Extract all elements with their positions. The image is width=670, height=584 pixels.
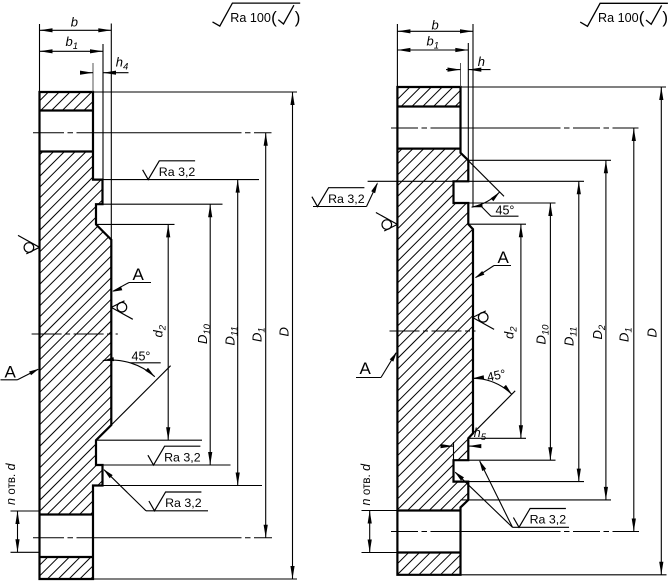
svg-text:d2: d2 (151, 324, 169, 337)
svg-text:D: D (645, 328, 660, 337)
svg-text:A: A (498, 248, 510, 267)
svg-text:d2: d2 (502, 326, 520, 339)
svg-text:b1: b1 (66, 34, 79, 52)
svg-text:b: b (71, 14, 78, 29)
svg-text:D1: D1 (617, 327, 635, 342)
svg-text:D10: D10 (534, 324, 552, 345)
svg-text:h: h (478, 54, 485, 69)
svg-text:D11: D11 (562, 327, 580, 346)
svg-text:b1: b1 (427, 34, 440, 52)
svg-text:A: A (133, 265, 145, 284)
svg-text:n отв. d: n отв. d (4, 462, 18, 505)
svg-text:45°: 45° (486, 367, 507, 385)
svg-text:A: A (360, 359, 372, 378)
svg-text:Ra 3,2: Ra 3,2 (328, 192, 365, 206)
svg-text:45°: 45° (496, 204, 515, 218)
svg-text:h4: h4 (116, 55, 129, 73)
svg-text:n отв. d: n отв. d (359, 463, 373, 506)
svg-text:): ) (295, 8, 301, 27)
svg-text:Ra 3,2: Ra 3,2 (164, 450, 201, 464)
svg-text:Ra 3,2: Ra 3,2 (530, 513, 567, 527)
svg-text:(: ( (271, 8, 277, 27)
svg-text:): ) (662, 8, 668, 27)
svg-text:b: b (432, 17, 439, 32)
svg-text:D1: D1 (250, 327, 268, 342)
svg-text:h5: h5 (474, 426, 487, 443)
svg-text:(: ( (639, 8, 645, 27)
svg-text:Ra 100: Ra 100 (598, 11, 639, 25)
svg-text:Ra 3,2: Ra 3,2 (165, 496, 202, 510)
svg-text:D: D (277, 327, 292, 336)
svg-text:Ra 100: Ra 100 (230, 11, 271, 25)
svg-text:D2: D2 (590, 324, 608, 339)
svg-text:45°: 45° (132, 350, 151, 364)
svg-text:Ra 3,2: Ra 3,2 (159, 165, 196, 179)
svg-text:A: A (5, 363, 17, 382)
